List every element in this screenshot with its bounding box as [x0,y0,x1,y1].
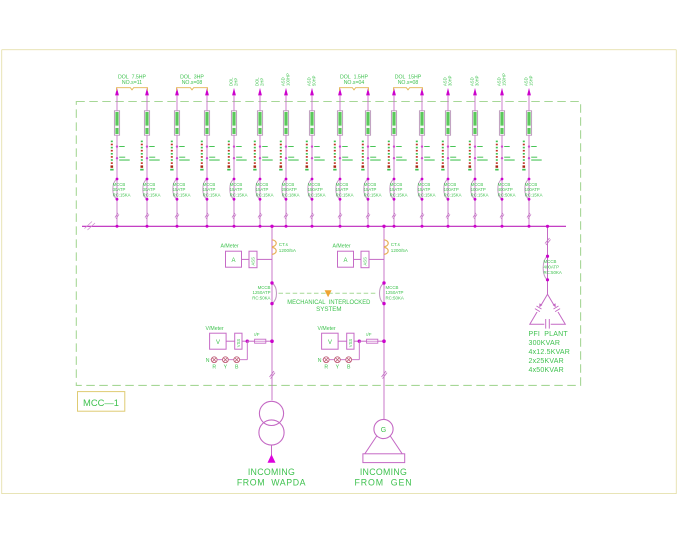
contactor + overload relay cluster feeder F7 [279,141,299,171]
cable tag feeder F10 [365,111,370,135]
incoming arrow WAPDA [268,454,276,463]
cable tag feeder F15 [499,111,504,135]
line break mark feeder F12 [420,213,424,219]
breaker MCCB 100ATP feeder F13 [444,178,462,201]
feeder branch F15 [495,88,515,228]
line break mark feeder F6 [258,213,262,219]
outgoing arrow feeder F4 [205,88,209,96]
svg-text:RC:15KA: RC:15KA [336,192,354,197]
cable tag feeder F12 [419,111,424,135]
svg-text:RC:15KA: RC:15KA [444,192,462,197]
label ASD 100HP (rotated) [281,73,291,86]
contactor + overload relay cluster feeder F12 [415,141,435,171]
svg-text:RC:15KA: RC:15KA [418,192,436,197]
node: bus junction feeder F14 [474,225,477,228]
cable tag feeder F4 [204,111,209,135]
wire feeder F1 drop [116,95,118,226]
svg-text:A: A [231,258,235,264]
svg-text:50HP: 50HP [312,75,317,86]
line break mark feeder F5 [232,213,236,219]
svg-text:B: B [347,365,351,371]
wire: V box to VSS [226,340,235,342]
label group DOL 3HP NO.s=08 [177,75,208,91]
svg-text:I/F: I/F [366,332,372,337]
breaker MCCB 400ATP PFI [543,255,562,282]
svg-text:ASS: ASS [251,257,256,266]
feeder branch F9 [333,88,353,228]
breaker MCCB 15ATP feeder F9 [336,178,354,201]
ammeter A/Meter GEN incomer [333,244,385,268]
feeder branch F7 [279,88,299,228]
contactor + overload relay cluster feeder F16 [522,141,542,171]
label INCOMING FROM WAPDA [237,467,306,488]
svg-text:RC:15KA: RC:15KA [113,192,131,197]
svg-text:RC:15KA: RC:15KA [308,192,326,197]
svg-text:RC:15KA: RC:15KA [256,192,274,197]
node: bus junction feeder F13 [447,225,450,228]
svg-text:PFI PLANT: PFI PLANT [529,331,569,338]
MCC-1 panel name box [78,392,125,412]
svg-text:MECHANICAL INTERLOCKED: MECHANICAL INTERLOCKED [287,299,371,306]
label DOL 2HP (rotated) [255,77,265,86]
svg-text:CT.s: CT.s [391,242,401,247]
svg-text:I/F: I/F [254,332,260,337]
wire feeder F13 drop [447,95,449,226]
indicator lamps R Y B GEN incomer [318,341,360,370]
svg-text:1200/5A: 1200/5A [279,248,297,253]
wire feeder F12 drop [421,95,423,226]
label ASD 15HP (rotated) [524,75,534,86]
node: bus junction feeder F4 [206,225,209,228]
node: V/Meter junction [246,340,249,343]
outgoing arrow feeder F11 [392,88,396,96]
svg-text:RC:15KA: RC:15KA [364,192,382,197]
cable tag feeder F7 [283,111,288,135]
label group DOL 15HP NO.s=08 [394,75,423,91]
breaker MCCB 1250ATP GEN incomer [380,281,404,305]
svg-text:ASS: ASS [363,257,368,266]
WAPDA incomer main wire [271,226,273,400]
svg-text:30HP: 30HP [475,75,480,86]
wire feeder F14 drop [474,95,476,226]
svg-text:RC:15KA: RC:15KA [173,192,191,197]
wire feeder F15 drop [501,95,503,226]
svg-text:NO.s=11: NO.s=11 [122,80,142,86]
ammeter A/Meter WAPDA incomer [221,244,273,268]
svg-text:Y: Y [336,365,340,371]
bus left end break mark [85,222,96,231]
PFI branch wire [547,226,549,295]
svg-text:INCOMING: INCOMING [360,467,407,477]
outgoing arrow feeder F12 [420,88,424,96]
wire feeder F5 drop [233,95,235,226]
contactor + overload relay cluster feeder F5 [227,141,247,171]
GEN incomer main wire [383,226,385,419]
feeder branch F12 [415,88,435,228]
svg-text:V/Meter: V/Meter [318,326,336,332]
breaker MCCB 30ATP feeder F1 [113,178,131,201]
svg-text:RC:15KA: RC:15KA [230,192,248,197]
contactor + overload relay cluster feeder F11 [387,141,407,171]
capacitor C3 (bottom) [544,322,550,326]
CT current transformer WAPDA incomer [272,240,297,255]
svg-text:CT.s: CT.s [279,242,289,247]
wire feeder F8 drop [311,95,313,226]
outgoing arrow feeder F13 [446,88,450,96]
contactor + overload relay cluster feeder F13 [441,141,461,171]
cable tag feeder F8 [309,111,314,135]
contactor + overload relay cluster feeder F6 [253,141,273,171]
line break mark PFI [545,238,551,245]
svg-text:300KVAR: 300KVAR [529,340,561,347]
svg-text:1200/5A: 1200/5A [391,248,409,253]
indicator lamps R Y B WAPDA incomer [206,341,248,370]
node: bus junction feeder F9 [339,225,342,228]
feeder branch F10 [361,88,381,228]
outgoing arrow feeder F2 [145,88,149,96]
voltmeter V/Meter WAPDA incomer [206,326,274,370]
node: bus junction feeder F12 [421,225,424,228]
cable tag feeder F2 [144,111,149,135]
svg-text:SYSTEM: SYSTEM [316,306,341,313]
line break mark feeder F2 [145,213,149,219]
contactor + overload relay cluster feeder F4 [200,141,220,171]
svg-text:VSS: VSS [348,339,353,348]
node: bus junction feeder F1 [116,225,119,228]
line break mark feeder F11 [392,213,396,219]
breaker MCCB 400ATP feeder F15 [498,178,516,201]
node: bus junction feeder F6 [259,225,262,228]
svg-text:MCC—1: MCC—1 [83,398,119,408]
node: V/Meter junction [358,340,361,343]
svg-text:150HP: 150HP [502,73,507,86]
breaker MCCB 1250ATP WAPDA incomer [252,281,276,305]
node: bus junction feeder F8 [311,225,314,228]
svg-text:NO.s=08: NO.s=08 [398,80,419,86]
label ASD 30HP (rotated) [443,75,453,86]
cable tag feeder F11 [391,111,396,135]
interlock marker triangle [325,290,332,297]
label PFI PLANT ratings [529,331,571,374]
svg-text:B: B [235,365,239,371]
outgoing arrow feeder F6 [258,88,262,96]
wire feeder F3 drop [176,95,178,226]
svg-text:Y: Y [224,365,228,371]
wire: transformer to arrow [271,445,273,455]
svg-text:N: N [318,358,322,364]
node: bus junction WAPDA incomer [270,225,273,228]
svg-text:RC:50KA: RC:50KA [386,295,404,300]
svg-text:A: A [343,258,347,264]
node: bus junction feeder F5 [233,225,236,228]
outgoing arrow feeder F9 [338,88,342,96]
transformer T (WAPDA incoming) [259,401,284,445]
wire: V box to VSS [338,340,347,342]
label group DOL 1.5HP NO.s=04 [340,75,369,91]
CT current transformer GEN incomer [384,240,409,255]
svg-text:RC:15KA: RC:15KA [203,192,221,197]
svg-text:R: R [324,365,328,371]
contactor + overload relay cluster feeder F8 [305,141,325,171]
outgoing arrow feeder F14 [473,88,477,96]
breaker MCCB 15ATP feeder F10 [364,178,382,201]
label INCOMING FROM GEN [355,467,413,488]
cable tag feeder F1 [114,111,119,135]
contactor + overload relay cluster feeder F15 [495,141,515,171]
svg-text:400ATP: 400ATP [544,264,560,269]
svg-text:2HP: 2HP [234,78,239,86]
contactor + overload relay cluster feeder F9 [333,141,353,171]
svg-text:15HP: 15HP [529,75,534,86]
outgoing arrow feeder F10 [366,88,370,96]
breaker MCCB 250ATP feeder F7 [282,178,300,201]
node: bus junction feeder F2 [146,225,149,228]
svg-text:RC:50KA: RC:50KA [252,295,270,300]
capacitor bank delta (PFI plant) [530,294,566,328]
contactor + overload relay cluster feeder F3 [170,141,190,171]
line break mark GEN incomer [382,371,388,379]
svg-text:VSS: VSS [236,339,241,348]
contactor + overload relay cluster feeder F1 [110,141,130,171]
node: fuse to main line [270,339,274,343]
node: bus junction PFI [546,225,549,228]
breaker MCCB 15ATP feeder F4 [203,178,221,201]
svg-text:RC:18KA: RC:18KA [282,192,300,197]
capacitor C2 (right leg) [553,305,560,312]
wire: ammeter to CT [354,258,362,260]
feeder branch F4 [200,88,220,228]
feeder branch F2 [140,88,160,228]
node: bus junction feeder F16 [528,225,531,228]
label group DOL 7.5HP NO.s=11 [117,75,148,91]
line break mark feeder F14 [473,213,477,219]
line break mark feeder F3 [175,213,179,219]
node: bus junction feeder F7 [285,225,288,228]
feeder branch F14 [468,88,488,228]
svg-text:2x25KVAR: 2x25KVAR [529,358,564,365]
outgoing arrow feeder F8 [310,88,314,96]
feeder branch F6 [253,88,273,228]
breaker MCCB 150ATP feeder F8 [308,178,326,201]
node: fuse to main line [382,339,386,343]
svg-text:RC:15KA: RC:15KA [471,192,489,197]
wire: main LV bus [82,225,566,227]
breaker MCCB 100ATP feeder F14 [471,178,489,201]
feeder branch F11 [387,88,407,228]
svg-text:RC:50KA: RC:50KA [544,270,562,275]
cable tag feeder F3 [174,111,179,135]
line break mark feeder F7 [284,213,288,219]
wire feeder F9 drop [339,95,341,226]
label DOL 2HP (rotated) [229,77,239,86]
line break mark feeder F4 [205,213,209,219]
svg-text:4x12.5KVAR: 4x12.5KVAR [529,349,571,356]
cable tag feeder F16 [526,111,531,135]
capacitor C1 (left leg) [535,305,542,312]
line break mark feeder F13 [446,213,450,219]
label MECHANICAL INTERLOCKED SYSTEM [287,299,371,313]
feeder branch F1 [110,88,130,228]
contactor + overload relay cluster feeder F2 [140,141,160,171]
node: bus junction feeder F3 [176,225,179,228]
wire: ammeter to CT [242,258,250,260]
svg-text:N: N [206,358,210,364]
node: bus junction feeder F15 [501,225,504,228]
svg-text:NO.s=08: NO.s=08 [182,80,203,86]
breaker MCCB 15ATP feeder F5 [230,178,248,201]
svg-text:R: R [212,365,216,371]
label ASD 150HP (rotated) [497,73,507,86]
breaker MCCB 100ATP feeder F16 [525,178,543,201]
mechanical interlock dashed link [279,292,378,294]
outgoing arrow feeder F7 [284,88,288,96]
outgoing arrow feeder F16 [527,88,531,96]
svg-text:RC:50KA: RC:50KA [498,192,516,197]
feeder branch F5 [227,88,247,228]
feeder branch F13 [441,88,461,228]
wire feeder F2 drop [146,95,148,226]
breaker MCCB 30ATP feeder F2 [143,178,161,201]
svg-text:30HP: 30HP [448,75,453,86]
svg-text:NO.s=04: NO.s=04 [344,80,365,86]
svg-text:RC:15KA: RC:15KA [143,192,161,197]
outgoing arrow feeder F5 [232,88,236,96]
line break mark feeder F10 [366,213,370,219]
contactor + overload relay cluster feeder F10 [361,141,381,171]
line break mark feeder F16 [527,213,531,219]
MCC-1 panel boundary (dashed) [76,102,580,386]
label ASD 30HP (rotated) [470,75,480,86]
svg-text:100HP: 100HP [286,73,291,86]
wire feeder F10 drop [367,95,369,226]
svg-text:FROM WAPDA: FROM WAPDA [237,478,306,488]
svg-text:FROM GEN: FROM GEN [355,478,413,488]
svg-text:4x50KVAR: 4x50KVAR [529,367,564,374]
label ASD 50HP (rotated) [307,75,317,86]
voltmeter V/Meter GEN incomer [318,326,386,370]
cable tag feeder F14 [472,111,477,135]
cable tag feeder F13 [445,111,450,135]
outgoing arrow feeder F1 [115,88,119,96]
generator G (GEN incoming) [363,419,405,462]
svg-text:G: G [381,427,386,434]
wire feeder F4 drop [206,95,208,226]
line break mark feeder F1 [115,213,119,219]
breaker MCCB 15ATP feeder F11 [390,178,408,201]
svg-text:V: V [216,340,220,346]
breaker MCCB 15ATP feeder F12 [418,178,436,201]
svg-text:A/Meter: A/Meter [333,244,351,250]
line break mark feeder F9 [338,213,342,219]
cable tag feeder F9 [337,111,342,135]
wire feeder F11 drop [393,95,395,226]
svg-text:2HP: 2HP [260,78,265,86]
line break mark feeder F15 [500,213,504,219]
feeder branch F3 [170,88,190,228]
node: bus junction feeder F11 [393,225,396,228]
cable tag feeder F6 [257,111,262,135]
breaker MCCB 15ATP feeder F6 [256,178,274,201]
svg-text:INCOMING: INCOMING [248,467,295,477]
svg-text:V/Meter: V/Meter [206,326,224,332]
line break mark feeder F8 [310,213,314,219]
cable tag feeder F5 [231,111,236,135]
svg-text:V: V [328,340,332,346]
node: bus junction GEN incomer [382,225,385,228]
contactor + overload relay cluster feeder F14 [468,141,488,171]
svg-text:RC:15KA: RC:15KA [390,192,408,197]
feeder branch F8 [305,88,325,228]
svg-text:A/Meter: A/Meter [221,244,239,250]
wire feeder F6 drop [259,95,261,226]
line break mark WAPDA incomer [270,371,276,379]
outgoing arrow feeder F15 [500,88,504,96]
breaker MCCB 15ATP feeder F3 [173,178,191,201]
feeder branch F16 [522,88,542,228]
node: bus junction feeder F10 [367,225,370,228]
svg-text:RC:15KA: RC:15KA [525,192,543,197]
outgoing arrow feeder F3 [175,88,179,96]
wire feeder F7 drop [285,95,287,226]
wire feeder F16 drop [528,95,530,226]
svg-text:MCCB: MCCB [544,259,557,264]
